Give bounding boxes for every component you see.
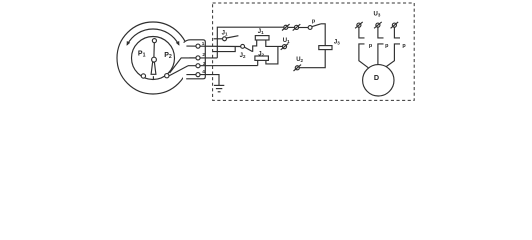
needle pivot circle: [152, 57, 157, 62]
terminal 2: [196, 56, 200, 60]
terminal 4: [196, 73, 200, 77]
wire to contact p: [299, 27, 308, 29]
svg-text:D: D: [374, 73, 379, 82]
fuse F1 on top rail: [282, 24, 290, 30]
svg-text:U2: U2: [296, 57, 303, 63]
fuse F2 on top rail: [293, 24, 301, 30]
motor lead 3 upper: [394, 27, 400, 38]
coil J3 bottom wire to fuse U2: [300, 50, 326, 68]
arrow head left: [127, 41, 131, 46]
svg-text:2: 2: [202, 52, 205, 57]
wire terminal3 to relay J2 coil: [188, 65, 258, 67]
relay coil J1: [255, 36, 269, 40]
contact J1 blade: [227, 36, 239, 38]
svg-text:J1: J1: [258, 29, 264, 35]
terminal 1: [196, 44, 200, 48]
svg-text:J2: J2: [240, 53, 246, 59]
needle shaft: [153, 43, 155, 58]
contact J2 pivot: [241, 44, 245, 48]
wire terminal4 to ground: [186, 75, 219, 86]
dial bottom tick: [152, 76, 154, 79]
terminal 3: [196, 64, 200, 68]
motor lead 1 upper: [359, 27, 365, 38]
contact p blade: [312, 24, 321, 27]
fuse U1: [281, 43, 289, 49]
terminal tab white mask: [183, 41, 205, 80]
relay coil J2: [255, 56, 269, 60]
wire terminal1 to contact J2 pivot: [186, 45, 240, 47]
pressure gauge outer case: [117, 22, 189, 94]
wire terminal2: [189, 57, 217, 59]
motor D: [363, 65, 394, 96]
svg-text:U1: U1: [283, 38, 290, 44]
coil J1 left pin to contact J2: [253, 40, 257, 52]
switch U3 pole 2: [374, 22, 382, 28]
coil J2 left pin: [257, 61, 259, 66]
svg-text:4: 4: [202, 69, 205, 74]
svg-text:J1: J1: [222, 30, 228, 36]
contactor contact p2 lower: [378, 44, 384, 65]
contact p pivot: [308, 26, 312, 30]
fuse U2: [294, 65, 302, 71]
svg-text:1: 1: [202, 41, 205, 46]
wire from contact p down to coil J3: [321, 24, 325, 46]
arrow head right: [176, 41, 180, 46]
terminal tab outline: [184, 40, 206, 79]
contact J1 rail: [214, 38, 223, 40]
contact setpoint wire lower: [169, 66, 188, 76]
svg-text:U3: U3: [374, 11, 381, 17]
wire between fuses: [288, 26, 294, 28]
ground symbol: [214, 85, 224, 91]
needle counterweight: [151, 62, 156, 74]
svg-text:P1: P1: [138, 50, 146, 58]
motor lead 2 upper: [378, 27, 384, 38]
svg-text:P2: P2: [164, 52, 172, 60]
contact setpoint wire P2 side: [170, 58, 197, 73]
svg-text:J2: J2: [258, 51, 264, 57]
contact pivot dot right: [165, 74, 169, 78]
contact pivot dot left: [141, 74, 145, 78]
switch U3 pole 1: [355, 22, 363, 28]
gauge inner dial circle: [132, 37, 175, 80]
switch U3 pole 3: [391, 22, 399, 28]
svg-text:3: 3: [203, 61, 206, 66]
junction down to coil J2: [266, 46, 278, 64]
dashed enclosure (control cabinet boundary): [213, 3, 415, 100]
needle swing arrow arc: [127, 29, 179, 45]
contactor contact p1 lower: [359, 44, 368, 68]
contact J1 pivot: [223, 37, 227, 41]
relay coil J3: [319, 46, 332, 50]
supply rail vertical: [217, 27, 283, 58]
contactor contact p3 lower: [385, 44, 400, 68]
svg-text:J3: J3: [334, 39, 340, 45]
needle tip hinge circle: [152, 39, 156, 43]
coil J1 right pin rail to fuse U1: [266, 40, 283, 46]
contact J2 blade: [245, 47, 253, 51]
stub wire to contact J2 fixed side: [213, 47, 235, 52]
